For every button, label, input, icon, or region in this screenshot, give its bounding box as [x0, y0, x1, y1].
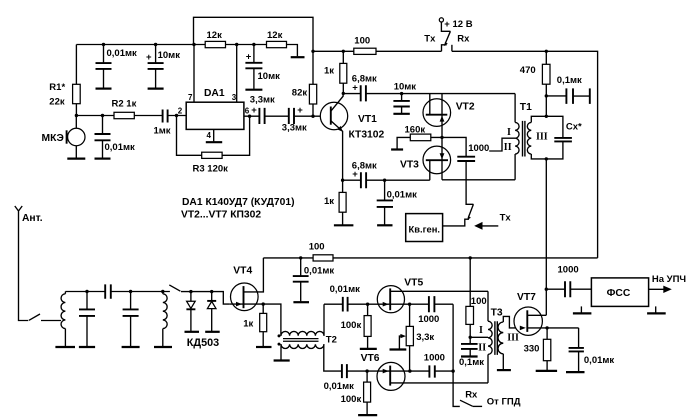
transistor VT1 KT3102: [320, 102, 347, 129]
transformer T2 primary: [281, 331, 324, 335]
svg-text:6: 6: [245, 107, 250, 116]
node: output rail junction: [311, 50, 314, 53]
capacitor 6,8mk #2 (emitter): [341, 179, 344, 182]
node: tank top/bottom junctions: [545, 115, 548, 118]
svg-text:1мк: 1мк: [154, 126, 171, 137]
node: rail junction to T3: [469, 256, 472, 259]
svg-text:1к: 1к: [243, 319, 253, 330]
capacitor (filter shunt 1): [86, 292, 88, 347]
ground (right of 12k #2): [291, 56, 305, 58]
svg-text:ФСС: ФСС: [607, 288, 631, 299]
wire: Rx rail y51.3: [452, 51, 598, 258]
svg-text:III: III: [536, 132, 548, 143]
pin 3 wire: [236, 45, 238, 103]
svg-text:От ГПД: От ГПД: [487, 397, 521, 408]
resistor 1k (VT4 source): [262, 304, 264, 346]
svg-text:1к: 1к: [324, 196, 334, 207]
svg-text:+: +: [251, 105, 257, 116]
T2 polarity dots: [278, 334, 281, 337]
transistor VT2 KP302: [423, 99, 451, 127]
svg-text:0,01мк: 0,01мк: [330, 284, 361, 295]
svg-text:I: I: [479, 325, 483, 336]
svg-text:T1: T1: [520, 102, 532, 113]
svg-text:12к: 12к: [207, 30, 223, 41]
svg-text:VT5: VT5: [404, 277, 423, 288]
resistor 100k (VT6 gate): [366, 371, 368, 414]
svg-text:КТ3102: КТ3102: [349, 130, 385, 141]
resistor 330: [546, 328, 548, 370]
svg-text:100к: 100к: [341, 320, 362, 331]
wire: tank bottom down to VT7 drain node: [545, 159, 547, 315]
resistor 1k (VT1 collector): [342, 51, 344, 93]
resistor 160k: [397, 137, 442, 148]
svg-text:DA1: DA1: [204, 88, 225, 99]
svg-text:10мк: 10мк: [158, 50, 181, 61]
svg-text:Tx: Tx: [424, 34, 436, 45]
svg-text:0,1мк: 0,1мк: [557, 75, 582, 86]
switch Rx (GPD input): [460, 400, 473, 406]
diode VD2 KD503: [211, 292, 213, 301]
transistor VT4 KP302: [231, 283, 259, 311]
svg-text:3: 3: [232, 93, 237, 102]
svg-text:VT1: VT1: [358, 114, 377, 125]
svg-text:R1*: R1*: [49, 82, 65, 93]
capacitor 0,01mk (top rail): [103, 45, 105, 88]
svg-text:R3 120к: R3 120к: [193, 164, 229, 175]
switch (antenna tap): [29, 314, 40, 320]
svg-text:Tx: Tx: [500, 213, 512, 224]
svg-text:160к: 160к: [405, 124, 426, 135]
svg-text:0,01мк: 0,01мк: [304, 266, 335, 277]
svg-text:+ 12 В: + 12 В: [444, 19, 472, 30]
capacitor 0,01mk (mic): [102, 116, 104, 158]
capacitor 0,01mk (rail decoupling): [299, 256, 302, 259]
svg-text:Ант.: Ант.: [22, 213, 43, 224]
svg-text:Rx: Rx: [457, 34, 470, 45]
svg-text:100: 100: [471, 296, 487, 307]
svg-text:+: +: [246, 51, 252, 62]
node: VT2/VT3 gate junction: [440, 136, 443, 139]
transistor VT7 KP302: [514, 307, 542, 335]
transformer T3 windings I+II: [487, 291, 489, 321]
resistor R1* 22k: [75, 45, 77, 116]
svg-text:100: 100: [309, 242, 325, 253]
ground (FSS right): [655, 306, 657, 312]
wire: tank circuit loop: [531, 116, 563, 159]
wire: top feedback loop: [194, 17, 314, 51]
svg-text:3,3мк: 3,3мк: [250, 94, 275, 105]
svg-text:VT3: VT3: [400, 160, 419, 171]
resistor 1k (VT1 emitter): [342, 180, 344, 224]
node: GPD node: [451, 369, 454, 372]
arrow: to UPCh output: [649, 288, 666, 290]
wire: mic bias rail y44.5: [76, 45, 297, 57]
transformer T3 winding III: [498, 322, 503, 354]
svg-text:+: +: [297, 105, 303, 116]
svg-text:7: 7: [188, 93, 193, 102]
node: 470 bottom junction: [545, 94, 548, 97]
capacitor 10mk (top rail, electrolytic): [155, 45, 157, 88]
resistor R3 120k feedback: [177, 116, 250, 156]
capacitor 1mk: [163, 110, 168, 123]
T1 core: [523, 121, 525, 157]
node: VT6 source: [408, 369, 411, 372]
transformer T1 winding III: [527, 122, 531, 154]
transformer T2 secondary: [281, 344, 324, 348]
svg-text:R2 1к: R2 1к: [112, 99, 137, 110]
capacitor 0,01mk (VT3 source): [383, 179, 386, 182]
svg-text:VT6: VT6: [361, 353, 380, 364]
wire: tap to T3 winding: [470, 336, 488, 338]
svg-text:3,3к: 3,3к: [416, 332, 434, 343]
svg-text:II: II: [504, 142, 512, 153]
svg-text:III: III: [507, 333, 519, 344]
capacitor 10mk (VT1 collector node): [400, 92, 403, 95]
T3 core: [495, 321, 497, 355]
svg-text:1000: 1000: [468, 143, 489, 154]
trimmer 3,3k: [409, 304, 411, 371]
transistor VT5 KP302: [377, 286, 404, 313]
svg-text:0,01мк: 0,01мк: [387, 190, 418, 201]
node: rail junctions: [102, 43, 105, 46]
resistor 100 (T3 feed): [469, 258, 471, 337]
wire: VT4 source to T2: [263, 304, 281, 336]
node: pin6 junction: [248, 115, 251, 118]
wire: pin6 output: [244, 115, 331, 117]
wire: T1 I/II tap stub: [489, 138, 515, 151]
antenna: [15, 206, 28, 321]
ground (FSS left): [580, 306, 582, 312]
wire: Rx supply rail y257.9: [263, 257, 597, 259]
node: T3 I/II tap: [469, 336, 472, 339]
svg-text:0,1мк: 0,1мк: [459, 357, 484, 368]
wire: 1mk to DA1 pin2: [168, 115, 186, 117]
switch Tx (Kv.gen): [468, 204, 473, 217]
svg-text:T3: T3: [491, 308, 503, 319]
filter box FSS: [591, 278, 648, 307]
capacitor 0,01mk (VT5 gate): [343, 297, 348, 312]
resistor 82k: [312, 51, 314, 116]
wire: VT3 drain to T1 bottom: [442, 179, 515, 181]
node: VT5 source: [408, 303, 411, 306]
svg-text:+: +: [352, 169, 358, 180]
ground (T3 III bottom): [502, 354, 504, 370]
svg-text:На УПЧ: На УПЧ: [652, 274, 687, 285]
svg-text:10мк: 10мк: [258, 71, 281, 82]
svg-text:1000: 1000: [424, 353, 445, 364]
inductor L1 (band filter): [64, 292, 66, 294]
svg-text:VT4: VT4: [233, 266, 252, 277]
svg-text:22к: 22к: [49, 97, 65, 108]
svg-text:+: +: [146, 52, 152, 63]
svg-text:T2: T2: [326, 335, 337, 346]
T2 core: [283, 339, 319, 342]
capacitor 6,8mk #1 (collector out): [343, 93, 515, 95]
wire: rail y51.3 Tx side: [313, 50, 442, 52]
capacitor (filter coupling): [105, 284, 111, 298]
svg-text:МКЭ: МКЭ: [42, 133, 64, 144]
resistor 100 (rail): [354, 48, 376, 54]
inductor L2 (band filter): [162, 292, 164, 294]
crystal oscillator box Kv.gen: [406, 214, 443, 242]
svg-text:0,01мк: 0,01мк: [105, 142, 136, 153]
op-amp DA1 box: [186, 102, 244, 129]
resistor 12k #1: [205, 41, 225, 47]
svg-text:II: II: [478, 343, 486, 354]
capacitor Cx*: [554, 138, 572, 142]
capacitor 0,1mk (470 node): [546, 95, 589, 97]
svg-text:3,3мк: 3,3мк: [282, 123, 307, 134]
svg-text:100к: 100к: [341, 394, 362, 405]
node: 470 top: [545, 50, 548, 53]
svg-text:470: 470: [520, 65, 536, 76]
svg-text:1000: 1000: [558, 265, 579, 276]
svg-text:Rx: Rx: [465, 390, 478, 401]
pin 7 wire: [193, 45, 195, 103]
node: pin2 junction: [175, 114, 178, 117]
diode VD1 KD503: [190, 292, 192, 301]
capacitor 1000 (VT6 source): [410, 370, 453, 372]
switch (filter to detector): [169, 285, 180, 291]
capacitor (filter shunt 2): [130, 292, 132, 347]
capacitor 3,3mk #1: [259, 108, 264, 124]
capacitor 1000 (VT5 source): [410, 303, 454, 305]
svg-text:2: 2: [178, 107, 183, 116]
switch Tx/Rx +12V: [439, 18, 443, 22]
svg-text:VT2: VT2: [456, 102, 475, 113]
wire: mic to R2: [76, 115, 162, 117]
svg-text:12к: 12к: [267, 30, 283, 41]
pin 4 ground: [213, 129, 215, 141]
svg-text:82к: 82к: [292, 88, 308, 99]
node: VT7 drain node: [545, 288, 548, 291]
node: VT6 gate junction: [365, 369, 368, 372]
svg-text:330: 330: [524, 344, 540, 355]
resistor 100 (Rx rail): [313, 255, 333, 261]
resistor 12k #2: [267, 41, 287, 47]
svg-text:1000: 1000: [418, 314, 439, 325]
capacitor 1000 (to FSS): [546, 288, 591, 290]
capacitor 0,1mk (T3 tap): [469, 337, 471, 355]
resistor 470: [545, 51, 547, 116]
svg-text:1к: 1к: [324, 65, 334, 76]
svg-text:VT2...VT7 КП302: VT2...VT7 КП302: [181, 210, 261, 221]
microphone MKE: [68, 128, 85, 145]
wire: to VT4 gate: [181, 292, 230, 305]
svg-text:4: 4: [207, 131, 212, 140]
resistor 100k (VT5 gate): [367, 304, 369, 348]
transistor VT6 KP302: [377, 362, 405, 390]
wire: filter top rail: [65, 291, 169, 293]
transformer T1 windings I+II: [514, 94, 516, 123]
wire: III top to VT7 gate: [503, 316, 527, 328]
svg-text:+: +: [352, 82, 358, 93]
node: mic output junction: [75, 114, 78, 117]
svg-text:0,01мк: 0,01мк: [584, 355, 615, 366]
wire: GPD injection vertical: [453, 304, 460, 406]
node: VT7 source: [545, 326, 548, 329]
svg-text:100: 100: [354, 36, 370, 47]
capacitor 10mk #2 (electrolytic): [253, 45, 255, 89]
capacitor 0,01mk (VT7 source): [578, 328, 580, 371]
svg-text:КД503: КД503: [187, 337, 219, 349]
node: VT4 source: [262, 302, 265, 305]
svg-text:0,01мк: 0,01мк: [107, 48, 138, 59]
svg-text:I: I: [507, 127, 511, 138]
capacitor 3,3mk #2: [289, 108, 294, 124]
arrow Tx: [477, 225, 498, 227]
transistor VT3 KP302: [423, 146, 451, 174]
svg-text:DA1 К140УД7 (КУД701): DA1 К140УД7 (КУД701): [182, 197, 295, 208]
node: VT5 gate junction: [366, 303, 369, 306]
capacitor 1000 (to Kv.gen switch): [442, 137, 473, 204]
svg-text:0,01мк: 0,01мк: [324, 381, 355, 392]
resistor R2 1k: [114, 112, 134, 118]
capacitor 0,01mk (VT6 gate): [342, 364, 347, 378]
svg-text:Кв.ген.: Кв.ген.: [409, 223, 440, 234]
svg-text:VT7: VT7: [517, 292, 536, 303]
svg-text:Cx*: Cx*: [566, 121, 582, 132]
svg-text:10мк: 10мк: [394, 82, 417, 93]
